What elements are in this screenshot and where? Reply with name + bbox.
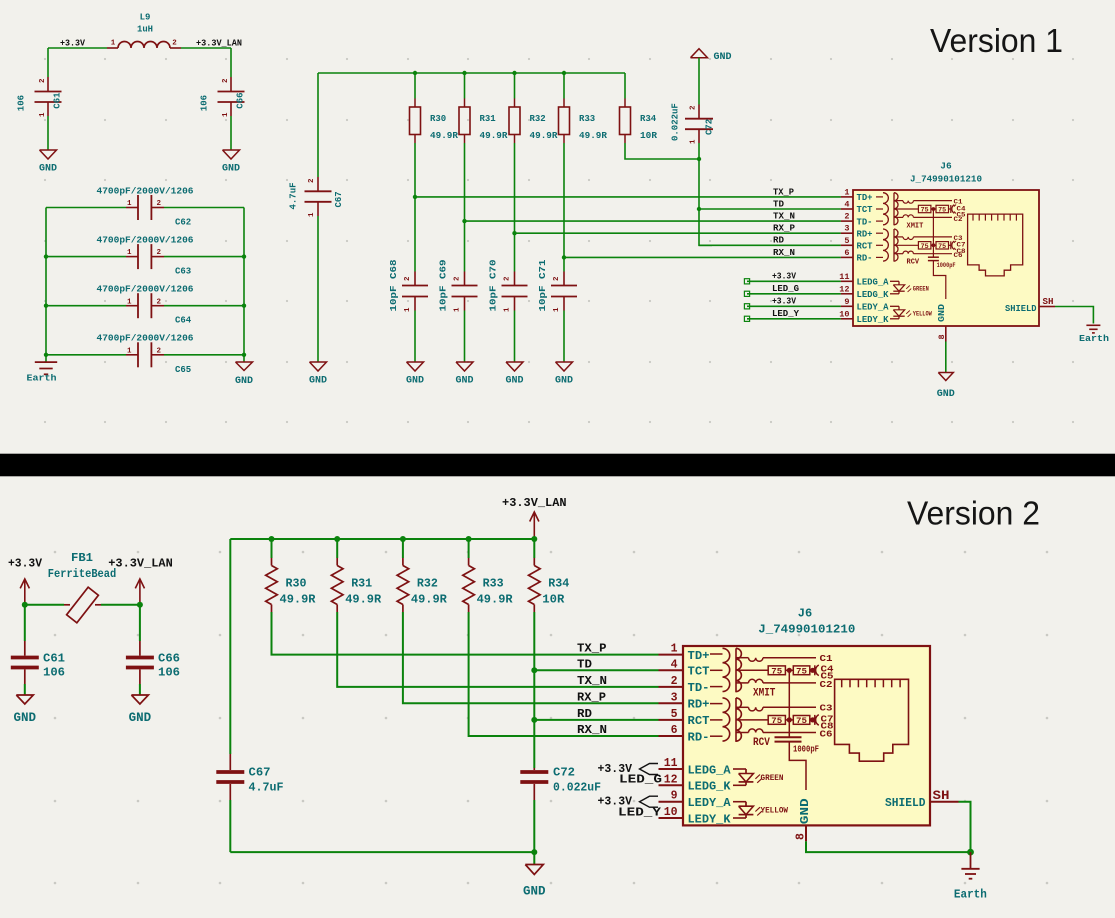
wire C69 to GND <box>464 311 466 363</box>
led GREEN (J6 internal) <box>890 280 899 282</box>
svg-text:2: 2 <box>39 78 47 83</box>
svg-text:L9: L9 <box>140 13 151 23</box>
svg-text:FerriteBead: FerriteBead <box>48 567 116 581</box>
pin 1 TD+ (V2) <box>659 654 684 656</box>
node bus junction R31 <box>462 71 466 75</box>
capacitor C72 0.022uF (V2) <box>533 768 535 770</box>
resistor R31 49.9R <box>464 99 466 108</box>
wire C66 to GND <box>139 684 141 695</box>
svg-text:+3.3V_LAN: +3.3V_LAN <box>502 496 567 510</box>
resistor R33 49.9R (V2) <box>468 539 470 558</box>
unconnected end <box>744 291 749 296</box>
wire R34 to C72 (V2) <box>533 612 535 768</box>
svg-text:SH: SH <box>1043 297 1054 307</box>
svg-text:SHIELD: SHIELD <box>1005 303 1037 314</box>
svg-text:R33: R33 <box>483 577 504 591</box>
svg-text:GND: GND <box>455 376 473 387</box>
node FB1 left <box>22 602 28 608</box>
svg-text:1: 1 <box>671 643 678 656</box>
svg-text:75: 75 <box>771 668 782 677</box>
svg-text:RD-: RD- <box>857 254 873 264</box>
svg-text:LEDY_A: LEDY_A <box>857 303 890 313</box>
svg-text:4700pF/2000V/1206: 4700pF/2000V/1206 <box>97 285 194 295</box>
wire net RX_N <box>564 256 841 258</box>
wire down to RD row <box>699 209 712 245</box>
svg-text:TX_P: TX_P <box>773 187 795 197</box>
pin 3 RD+ <box>841 232 853 234</box>
wire bottom rail (V2) <box>230 851 534 853</box>
capacitor C62 4700pF/2000V/1206 <box>46 207 126 209</box>
node R34/C72 junction <box>697 157 701 161</box>
svg-text:75: 75 <box>771 717 782 726</box>
separator bar <box>0 454 1115 477</box>
wire net LED_Y <box>747 318 841 320</box>
capacitor C66 <box>230 77 232 92</box>
svg-text:2: 2 <box>157 249 162 257</box>
svg-text:2: 2 <box>844 212 849 222</box>
wire C61 to GND <box>24 684 26 695</box>
svg-text:1: 1 <box>553 307 561 312</box>
wire +3.3V down to C61 <box>47 48 49 77</box>
svg-text:3: 3 <box>671 691 678 704</box>
svg-text:GND: GND <box>523 885 546 899</box>
svg-text:RCT: RCT <box>688 714 710 728</box>
svg-text:TD+: TD+ <box>688 649 710 663</box>
pin 11 LEDG_A (V2) <box>659 768 684 770</box>
wire SHIELD to Earth (V2) <box>959 802 971 852</box>
svg-text:R33: R33 <box>579 114 595 124</box>
svg-text:FB1: FB1 <box>71 551 93 565</box>
capacitor C70 10pF <box>514 272 516 286</box>
svg-text:1: 1 <box>127 347 132 355</box>
pin 5 RCT <box>841 244 853 246</box>
transformer XMIT (J6 internal V2) <box>710 653 723 655</box>
ground GND (C61) <box>40 150 57 159</box>
ground GND (C70) <box>506 362 523 371</box>
svg-text:75: 75 <box>938 243 946 250</box>
node signal junction at R32 column <box>512 231 516 235</box>
svg-text:2: 2 <box>308 178 316 183</box>
svg-text:LEDY_A: LEDY_A <box>688 796 732 810</box>
svg-text:2: 2 <box>222 78 230 83</box>
svg-text:GND: GND <box>937 303 947 322</box>
svg-text:10: 10 <box>839 309 849 319</box>
svg-text:RD: RD <box>577 707 592 721</box>
wire bus to R32 <box>514 73 516 99</box>
led GREEN (J6 internal V2) <box>733 768 746 770</box>
capacitor 1000pF (J6 internal) <box>932 245 934 257</box>
svg-text:C62: C62 <box>175 218 191 228</box>
svg-text:RX_P: RX_P <box>577 690 606 704</box>
svg-text:10R: 10R <box>640 131 658 141</box>
svg-text:49.9R: 49.9R <box>530 131 559 141</box>
svg-text:R30: R30 <box>430 114 446 124</box>
capacitor C67 4.7uF <box>317 177 319 191</box>
wire +3.3V_LAN bus <box>230 538 534 540</box>
svg-text:TD-: TD- <box>857 217 873 227</box>
svg-text:TD: TD <box>577 657 592 671</box>
svg-text:TD-: TD- <box>688 681 710 695</box>
svg-text:+3.3V: +3.3V <box>772 297 797 307</box>
svg-text:Version 1: Version 1 <box>930 23 1063 60</box>
svg-text:C67: C67 <box>249 766 271 780</box>
led YELLOW (J6 internal) <box>890 305 899 307</box>
wire +3.3V bias bus <box>318 72 625 74</box>
svg-text:J6: J6 <box>940 161 952 172</box>
pin 1 TD+ <box>841 196 853 198</box>
svg-text:+3.3V_LAN: +3.3V_LAN <box>196 39 242 49</box>
svg-text:RD-: RD- <box>688 730 710 744</box>
pin 12 LEDG_K <box>841 293 853 295</box>
pin 10 LEDY_K (V2) <box>659 817 684 819</box>
svg-text:49.9R: 49.9R <box>411 592 448 606</box>
wire C72 to TD node <box>698 143 700 159</box>
svg-text:49.9R: 49.9R <box>579 131 608 141</box>
svg-text:TCT: TCT <box>857 205 874 215</box>
node cap bank left <box>44 304 48 308</box>
node bus junction R30 (V2) <box>269 536 275 542</box>
pin 6 RD- <box>841 256 853 258</box>
wire bus to R33 <box>563 73 565 99</box>
svg-text:TD+: TD+ <box>857 193 873 203</box>
pin 4 TCT <box>841 208 853 210</box>
svg-text:10pF C69: 10pF C69 <box>439 260 449 312</box>
resistor R34 10R <box>624 73 626 99</box>
resistor R33 49.9R <box>563 99 565 108</box>
svg-text:1: 1 <box>690 139 698 144</box>
pin 4 TCT (V2) <box>659 669 684 671</box>
wire bus down to C67 <box>317 73 319 177</box>
svg-text:R34: R34 <box>640 114 657 124</box>
svg-text:RX_N: RX_N <box>773 248 795 258</box>
svg-text:C65: C65 <box>175 365 191 375</box>
wire net TX_P <box>415 196 841 198</box>
pin 11 LEDG_A <box>841 280 853 282</box>
wire C61 to GND <box>47 116 49 150</box>
node bus junction R33 <box>562 71 566 75</box>
svg-text:4.7uF: 4.7uF <box>289 182 299 209</box>
svg-text:+3.3V: +3.3V <box>60 39 86 49</box>
svg-text:TD: TD <box>773 199 785 209</box>
ground GND (cap bank) <box>243 355 245 362</box>
wire left bus of cap bank (to Earth) <box>45 208 47 355</box>
svg-text:4700pF/2000V/1206: 4700pF/2000V/1206 <box>97 334 194 344</box>
svg-text:75: 75 <box>921 243 929 250</box>
svg-text:C6: C6 <box>954 252 963 259</box>
wire L9 pin2 to +3.3V_LAN <box>181 47 231 49</box>
svg-text:4: 4 <box>844 200 849 210</box>
ground GND (C68) <box>407 362 424 371</box>
node signal junction at R33 column <box>562 255 566 259</box>
svg-text:+3.3V: +3.3V <box>772 272 797 282</box>
svg-text:GREEN: GREEN <box>913 285 929 292</box>
pin 2 TD- (V2) <box>659 686 684 688</box>
svg-text:2: 2 <box>404 276 412 281</box>
svg-text:RX_N: RX_N <box>577 723 607 737</box>
wire bus to R31 <box>464 73 466 99</box>
node signal junction at R31 column <box>462 219 466 223</box>
svg-text:J6: J6 <box>798 607 812 621</box>
wire resistor to signal row (V2) <box>337 612 658 687</box>
wire resistor to signal row (V2) <box>403 612 659 703</box>
wire R30 down through signal rows <box>414 143 416 272</box>
svg-text:106: 106 <box>158 666 180 680</box>
svg-text:RCV: RCV <box>753 737 770 749</box>
svg-text:RD: RD <box>773 236 785 246</box>
svg-text:1: 1 <box>844 187 849 197</box>
svg-text:R31: R31 <box>351 577 372 591</box>
svg-text:GND: GND <box>235 376 253 387</box>
wire center tap (J6 internal) <box>932 209 934 245</box>
pin 6 RD- (V2) <box>659 735 684 737</box>
svg-text:C1: C1 <box>820 654 834 664</box>
ground GND (C66) <box>223 150 240 159</box>
svg-text:11: 11 <box>839 272 849 282</box>
pin 9 LEDY_A <box>841 305 853 307</box>
svg-text:2: 2 <box>157 200 162 208</box>
node signal junction at R30 column <box>413 195 417 199</box>
connector J6 J_74990101210 body <box>853 190 1039 326</box>
svg-text:TX_P: TX_P <box>577 642 607 656</box>
capacitor C71 10pF <box>563 272 565 286</box>
wire bus down to C67 (V2) <box>229 539 231 754</box>
node GND junction (V2) <box>531 849 537 855</box>
svg-text:4700pF/2000V/1206: 4700pF/2000V/1206 <box>97 235 194 245</box>
svg-text:49.9R: 49.9R <box>477 592 514 606</box>
wire pin8 to Earth node (V2) <box>806 841 971 852</box>
rj45 jack outline (J6 internal) <box>968 214 1023 276</box>
capacitor 1000pF (J6 internal V2) <box>788 720 790 737</box>
node bus junction R33 (V2) <box>466 536 472 542</box>
svg-text:GND: GND <box>39 164 57 175</box>
node C72/TD junction <box>697 207 701 211</box>
inductor L9 <box>107 47 118 49</box>
svg-text:GND: GND <box>129 711 152 725</box>
wire net +3.3V <box>747 305 841 307</box>
svg-text:75: 75 <box>921 207 929 214</box>
svg-text:J_74990101210: J_74990101210 <box>910 173 982 184</box>
wire net TD <box>699 208 841 210</box>
node cap bank right <box>242 353 246 357</box>
rj45 jack outline (V2) <box>835 679 909 761</box>
svg-text:1: 1 <box>308 212 316 217</box>
svg-text:LEDG_K: LEDG_K <box>857 290 890 300</box>
svg-text:GND: GND <box>555 376 573 387</box>
svg-text:75: 75 <box>796 717 807 726</box>
capacitor C63 4700pF/2000V/1206 <box>46 256 126 258</box>
capacitor C66 106 (V2) <box>139 605 141 641</box>
svg-text:49.9R: 49.9R <box>280 592 317 606</box>
wire net +3.3V <box>747 280 841 282</box>
wire R31 down through signal rows <box>464 143 466 272</box>
svg-text:11: 11 <box>664 757 678 770</box>
svg-text:C72: C72 <box>705 119 715 135</box>
svg-text:LEDG_A: LEDG_A <box>857 278 890 288</box>
svg-text:Version 2: Version 2 <box>907 496 1040 533</box>
svg-text:C2: C2 <box>820 680 833 690</box>
svg-text:C61: C61 <box>43 652 65 666</box>
svg-text:8: 8 <box>937 334 947 339</box>
svg-text:GND: GND <box>14 711 37 725</box>
svg-text:2: 2 <box>690 105 698 110</box>
svg-text:10: 10 <box>664 806 678 819</box>
wire net RD <box>699 244 841 246</box>
svg-text:1uH: 1uH <box>137 25 153 35</box>
svg-text:RX_P: RX_P <box>773 224 796 234</box>
ground GND (V2 bottom) <box>533 852 535 864</box>
svg-text:C72: C72 <box>553 766 575 780</box>
svg-text:1000pF: 1000pF <box>793 744 819 754</box>
svg-text:R32: R32 <box>530 114 546 124</box>
svg-text:LEDY_K: LEDY_K <box>688 812 732 826</box>
svg-text:12: 12 <box>839 284 849 294</box>
wire bus to R30 <box>414 73 416 99</box>
svg-text:LED_G: LED_G <box>619 773 662 787</box>
node bus junction R32 (V2) <box>400 536 406 542</box>
wire R33 down through signal rows <box>563 143 565 272</box>
wire C67 to GND <box>317 216 319 362</box>
svg-text:C61: C61 <box>53 92 63 109</box>
wire +3.3V to L9 pin1 <box>48 47 107 49</box>
svg-text:10pF C68: 10pF C68 <box>389 260 399 312</box>
wire RD row (V2) <box>534 719 658 721</box>
connector J6 J_74990101210 body (V2) <box>683 646 930 825</box>
node FB1 right <box>137 602 143 608</box>
capacitor C72 0.022uF <box>698 70 700 105</box>
wire net LED_G <box>747 293 841 295</box>
capacitor C64 4700pF/2000V/1206 <box>46 305 126 307</box>
unconnected end <box>744 279 749 284</box>
capacitor C61 <box>47 77 49 92</box>
wire net RX_P <box>515 232 841 234</box>
svg-text:3: 3 <box>844 224 849 234</box>
svg-text:XMIT: XMIT <box>907 222 924 230</box>
wire resistor to signal row (V2) <box>469 612 659 736</box>
svg-text:RD+: RD+ <box>688 698 710 712</box>
svg-text:8: 8 <box>795 833 808 840</box>
node cap bank right <box>242 254 246 258</box>
wire +3.3V_LAN down to C66 <box>230 48 232 77</box>
wire C70 to GND <box>514 311 516 363</box>
earth ground (shield) <box>1086 324 1100 326</box>
svg-text:2: 2 <box>454 276 462 281</box>
svg-text:C6: C6 <box>820 730 833 740</box>
node bus junction R34 (V2) <box>531 536 537 542</box>
svg-text:GND: GND <box>798 798 812 824</box>
node cap bank left <box>44 353 48 357</box>
svg-text:1: 1 <box>111 40 116 48</box>
wire right bus of cap bank (to GND) <box>243 208 245 355</box>
svg-text:C64: C64 <box>175 316 192 326</box>
svg-text:Earth: Earth <box>27 373 57 384</box>
svg-text:+3.3V_LAN: +3.3V_LAN <box>108 557 173 571</box>
svg-text:1: 1 <box>404 307 412 312</box>
capacitor C68 10pF <box>414 272 416 286</box>
svg-text:R34: R34 <box>548 577 569 591</box>
svg-text:C63: C63 <box>175 267 191 277</box>
svg-text:1: 1 <box>127 249 132 257</box>
svg-text:9: 9 <box>844 297 849 307</box>
svg-text:106: 106 <box>43 666 65 680</box>
svg-text:0.022uF: 0.022uF <box>553 781 601 795</box>
svg-text:Earth: Earth <box>954 887 987 901</box>
svg-text:106: 106 <box>200 95 210 111</box>
pin 2 TD- <box>841 220 853 222</box>
capacitor C61 106 (V2) <box>24 605 26 641</box>
node bus junction R30 <box>413 71 417 75</box>
resistor R34 10R (V2) <box>533 539 535 558</box>
node cap bank right <box>242 304 246 308</box>
svg-text:75: 75 <box>938 207 946 214</box>
svg-text:10pF C70: 10pF C70 <box>489 260 499 312</box>
svg-text:0.022uF: 0.022uF <box>671 103 681 141</box>
ground GND (C66 V2) <box>131 695 148 704</box>
svg-text:SHIELD: SHIELD <box>885 796 926 810</box>
svg-text:75: 75 <box>796 668 807 677</box>
pin 3 RD+ (V2) <box>659 702 684 704</box>
svg-text:LEDY_K: LEDY_K <box>857 315 890 325</box>
svg-text:2: 2 <box>172 40 177 48</box>
ground GND (C61 V2) <box>16 695 33 704</box>
svg-text:2: 2 <box>671 675 678 688</box>
wire net TX_N <box>465 220 841 222</box>
ground GND (C69) <box>456 362 473 371</box>
svg-text:GND: GND <box>714 52 732 63</box>
node TD junction (V2) <box>531 667 537 673</box>
wire C66 to GND <box>230 116 232 150</box>
svg-text:49.9R: 49.9R <box>345 592 382 606</box>
svg-text:LED_Y: LED_Y <box>618 805 662 819</box>
svg-text:TX_N: TX_N <box>577 674 607 688</box>
svg-text:5: 5 <box>671 708 678 721</box>
capacitor C69 10pF <box>464 272 466 286</box>
wire C72 to bottom rail <box>533 800 535 852</box>
svg-text:49.9R: 49.9R <box>480 131 509 141</box>
svg-text:5: 5 <box>844 236 849 246</box>
wire C67 to bottom rail <box>229 800 231 852</box>
svg-text:2: 2 <box>553 276 561 281</box>
svg-text:10R: 10R <box>542 592 565 606</box>
resistor R30 49.9R <box>414 99 416 108</box>
capacitor C67 4.7uF (V2) <box>229 754 231 770</box>
wire C71 to GND <box>563 311 565 363</box>
svg-text:GREEN: GREEN <box>761 774 784 783</box>
svg-text:9: 9 <box>671 790 678 803</box>
svg-text:LED_Y: LED_Y <box>772 309 800 319</box>
svg-text:SH: SH <box>933 789 950 803</box>
svg-text:Earth: Earth <box>1079 333 1109 344</box>
svg-text:R30: R30 <box>286 577 307 591</box>
node Earth junction (V2) <box>967 849 974 856</box>
svg-text:R32: R32 <box>417 577 438 591</box>
earth ground (cap bank) <box>45 355 47 362</box>
svg-text:C66: C66 <box>236 92 246 108</box>
svg-text:GND: GND <box>309 376 327 387</box>
svg-text:1000pF: 1000pF <box>937 262 956 269</box>
wire resistor to signal row (V2) <box>272 612 659 655</box>
ferrite bead FB1 <box>25 604 64 606</box>
svg-text:J_74990101210: J_74990101210 <box>758 623 855 637</box>
node bus junction R31 (V2) <box>334 536 340 542</box>
svg-text:C3: C3 <box>820 704 833 714</box>
svg-text:6: 6 <box>844 248 849 258</box>
svg-text:C67: C67 <box>334 191 344 207</box>
svg-text:1: 1 <box>127 200 132 208</box>
svg-text:RCV: RCV <box>907 259 920 267</box>
svg-text:2: 2 <box>157 347 162 355</box>
wire SHIELD to Earth <box>1055 307 1093 324</box>
svg-text:LED_G: LED_G <box>772 284 799 294</box>
